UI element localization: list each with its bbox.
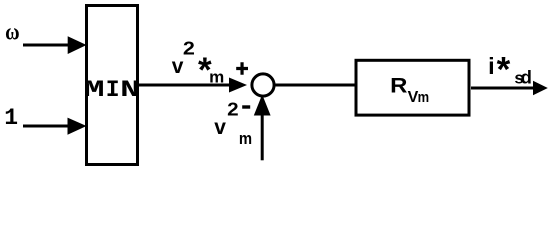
svg-text:m: m [209,67,224,86]
arrowhead output [533,81,548,96]
svg-text:m: m [418,89,430,106]
minus sign [242,105,250,108]
arrowhead omega into MIN [68,36,87,54]
label i*sd (output) [488,50,532,89]
wire summing junction to RVm [275,84,357,87]
wire feedback vertical [261,114,264,160]
wire MIN output to summing junction [139,84,230,87]
label v2m (feedback) [214,99,252,148]
svg-text:m: m [239,130,252,148]
summing junction [252,74,274,96]
svg-text:i: i [488,53,495,79]
block MIN [84,6,141,165]
svg-text:1: 1 [4,105,18,131]
svg-text:d: d [521,67,532,88]
svg-text:M: M [84,77,105,103]
svg-text:ω: ω [5,19,20,44]
plus sign [236,62,248,74]
wire RVm output [471,87,534,90]
wire 1 input [23,125,70,128]
arrowhead into summing junction [229,78,247,93]
label v2*m (reference) [172,38,224,90]
svg-text:N: N [120,77,140,103]
arrowhead feedback into summing junction [254,95,271,116]
svg-text:2: 2 [183,38,195,58]
svg-text:2: 2 [227,99,239,119]
block RVm [356,60,469,115]
svg-text:v: v [172,55,184,78]
wire omega input [23,44,70,47]
svg-text:I: I [106,77,120,103]
arrowhead 1 into MIN [68,118,87,135]
svg-text:*: * [497,50,511,89]
svg-text:v: v [214,116,226,139]
svg-text:R: R [390,74,408,98]
